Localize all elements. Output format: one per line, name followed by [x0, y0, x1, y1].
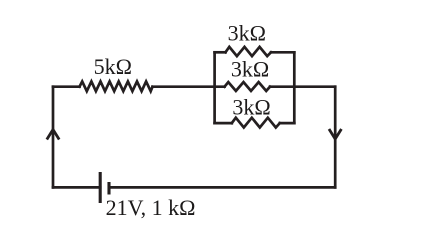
- wire: bottom branch right lead: [280, 122, 295, 125]
- svg-text:3kΩ: 3kΩ: [228, 21, 266, 46]
- svg-text:5kΩ: 5kΩ: [94, 54, 132, 79]
- resistor R1 5kohm: [80, 81, 153, 91]
- wire: bottom horizontal segment left of battery: [53, 186, 100, 189]
- wire: top branch left lead: [215, 51, 226, 54]
- battery V1 negative plate (short): [107, 182, 110, 195]
- wire: bottom horizontal segment right of battery: [109, 186, 335, 189]
- svg-text:21V, 1 kΩ: 21V, 1 kΩ: [106, 195, 196, 220]
- resistor R2 3kohm top branch: [226, 47, 272, 56]
- wire: top branch right lead: [271, 51, 294, 54]
- arrow: current direction down on right branch: [329, 129, 341, 139]
- svg-text:3kΩ: 3kΩ: [232, 95, 270, 120]
- arrow: current direction up on left branch: [47, 130, 59, 140]
- wire: top left horizontal segment: [53, 85, 80, 88]
- wire: middle branch right lead to top-right corner: [270, 85, 335, 88]
- resistor R3 3kohm middle branch: [225, 82, 271, 91]
- node: right bus of parallel bank: [293, 51, 296, 125]
- wire: bottom branch left lead: [215, 122, 232, 125]
- wire: left vertical branch: [52, 87, 55, 188]
- battery V1 positive plate (long): [99, 172, 102, 203]
- resistor R4 3kohm bottom branch: [232, 118, 280, 128]
- node: left bus of parallel bank: [213, 51, 216, 125]
- wire: top horizontal segment from R1 to parallel bank: [153, 85, 225, 88]
- svg-text:3kΩ: 3kΩ: [231, 57, 269, 82]
- wire: right vertical branch: [334, 87, 337, 188]
